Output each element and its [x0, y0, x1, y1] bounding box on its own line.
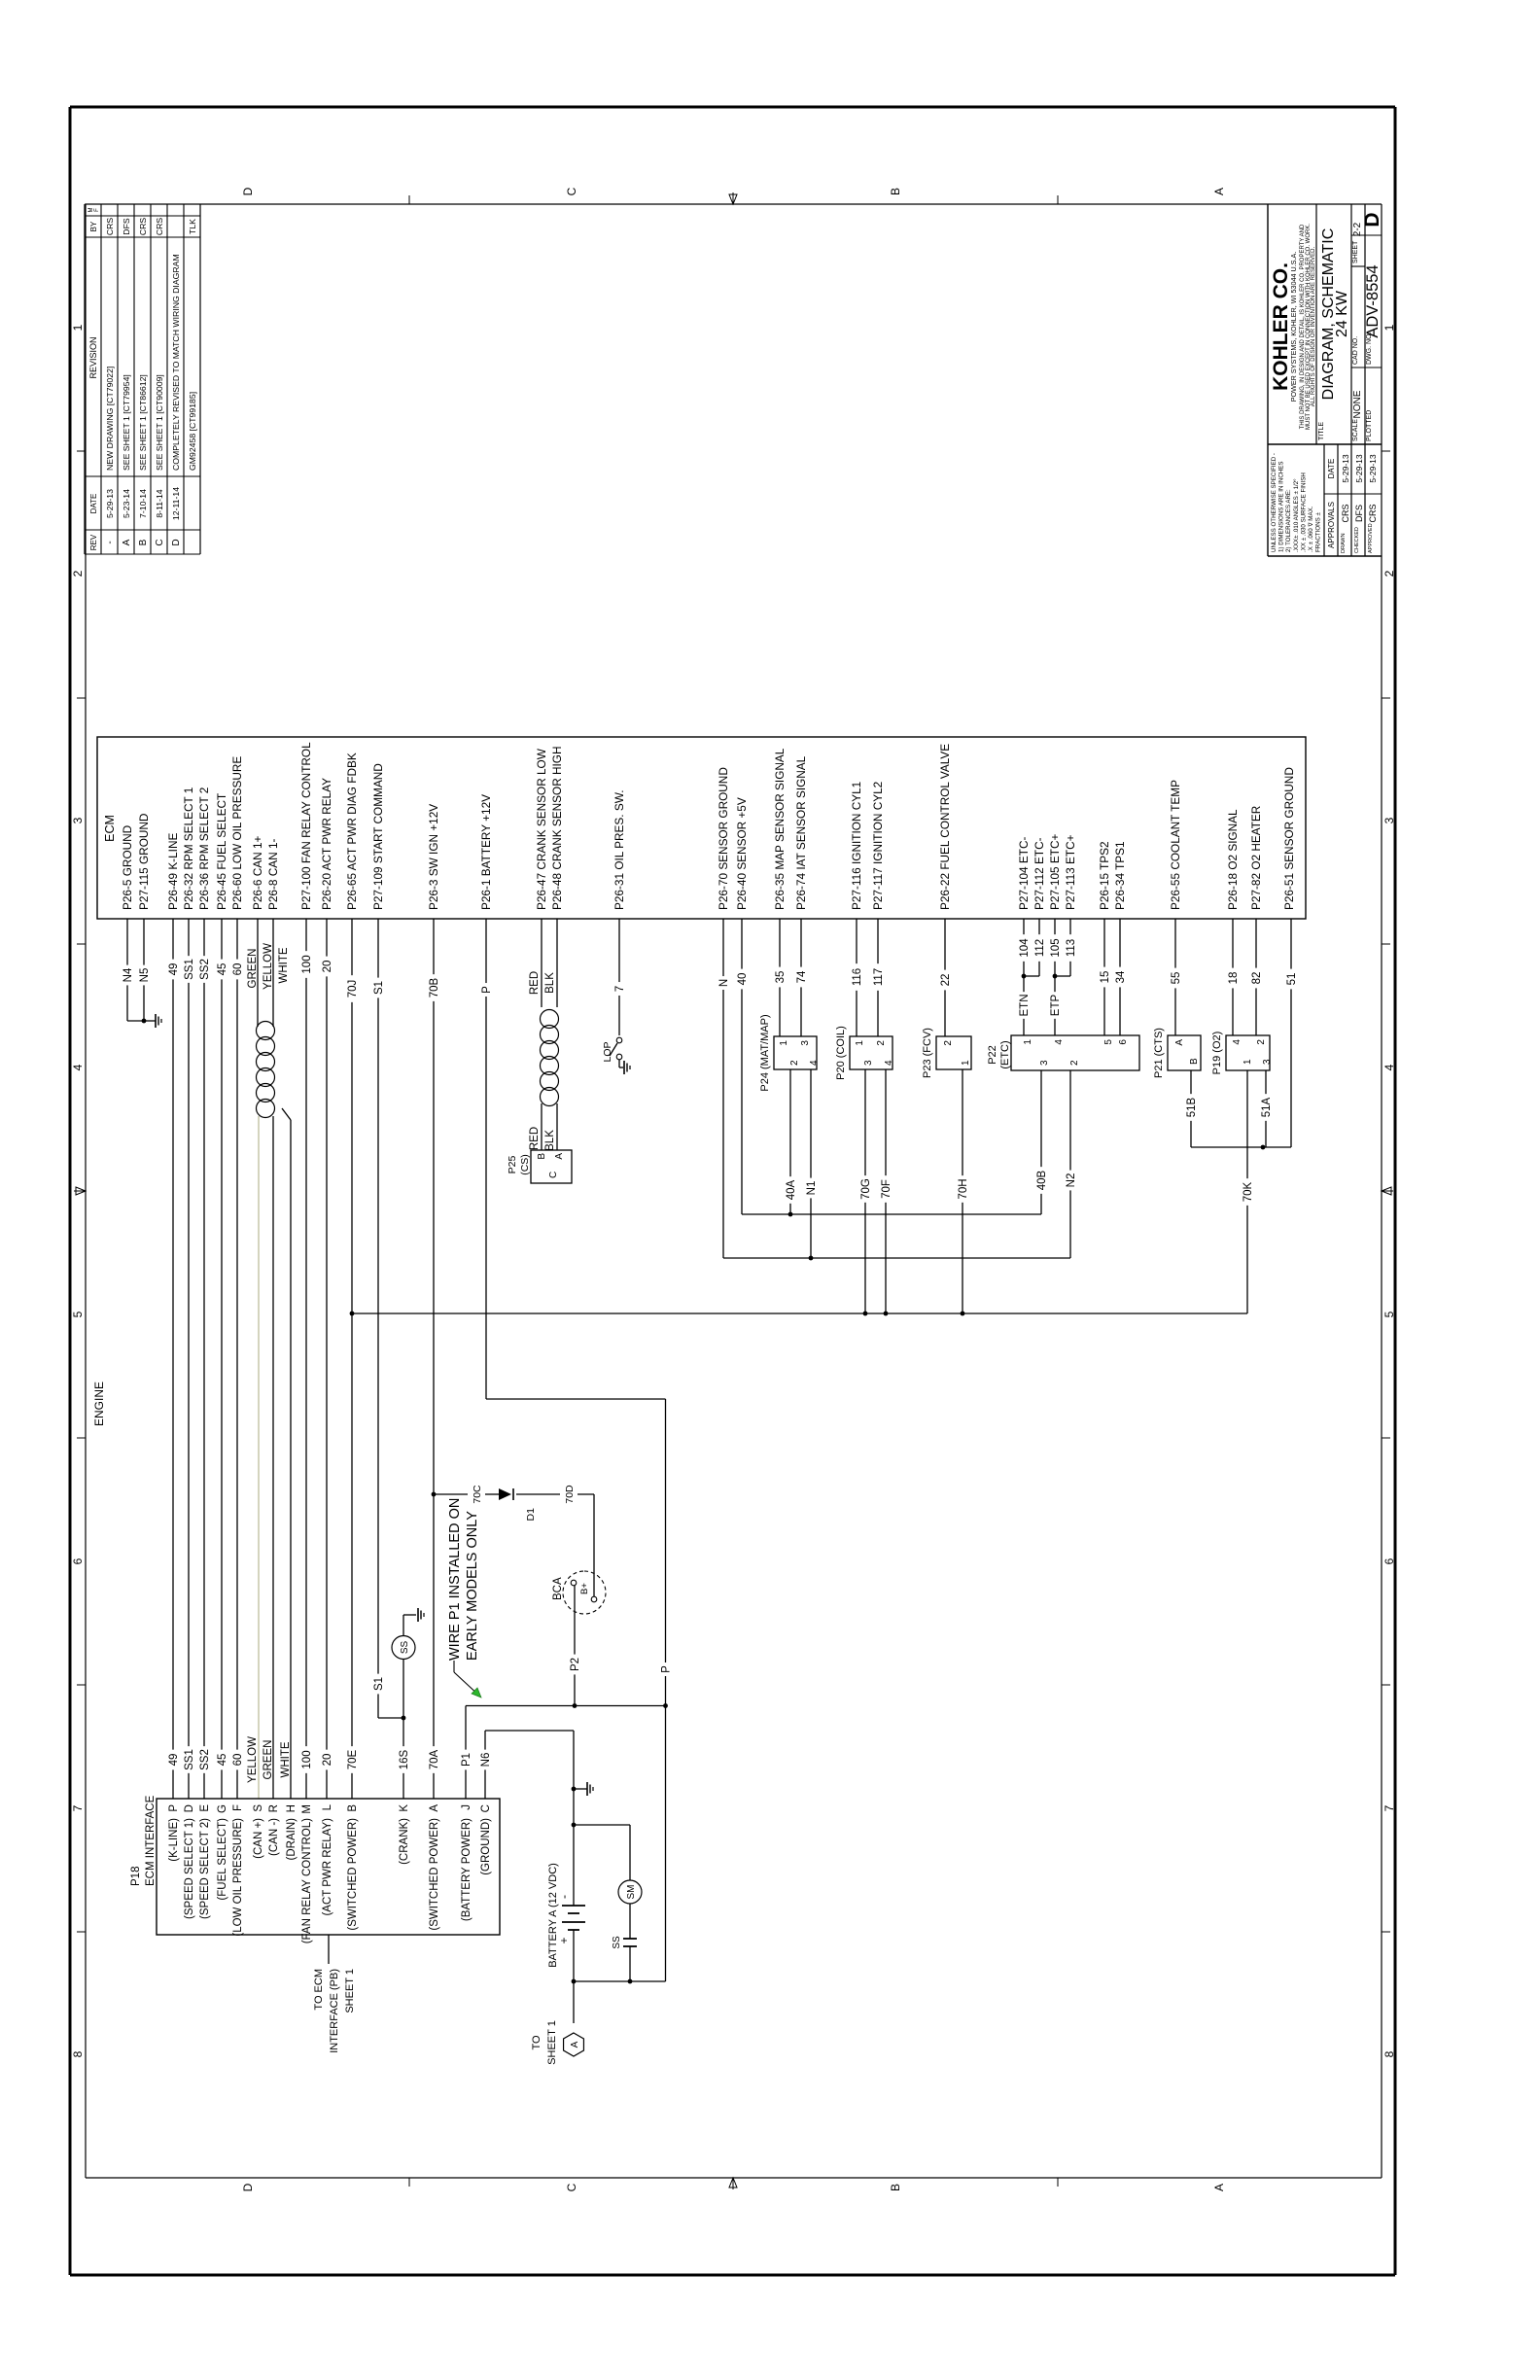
- svg-text:P26-51 SENSOR GROUND: P26-51 SENSOR GROUND: [1282, 767, 1296, 910]
- svg-text:F: F: [232, 1804, 244, 1811]
- svg-text:RED: RED: [529, 1127, 541, 1150]
- svg-text:1: 1: [779, 1040, 789, 1046]
- svg-text:20: 20: [322, 961, 333, 973]
- svg-text:-: -: [557, 1895, 571, 1899]
- svg-text:P26-22 FUEL CONTROL VALVE: P26-22 FUEL CONTROL VALVE: [938, 744, 952, 910]
- svg-text:P26-49 K-LINE: P26-49 K-LINE: [166, 833, 180, 910]
- svg-text:REV: REV: [89, 534, 98, 550]
- svg-text:P2: P2: [570, 1658, 581, 1671]
- svg-text:.XXX± .010 ANGLES ± 1/2°: .XXX± .010 ANGLES ± 1/2°: [1293, 478, 1300, 552]
- svg-text:112: 112: [1034, 939, 1046, 957]
- svg-text:SEE SHEET 1 [CT86612]: SEE SHEET 1 [CT86612]: [138, 374, 148, 471]
- svg-text:5-29-13: 5-29-13: [1368, 454, 1378, 483]
- svg-text:2) TOLERANCES ARE:: 2) TOLERANCES ARE:: [1285, 489, 1292, 552]
- svg-text:8: 8: [71, 2050, 85, 2057]
- svg-text:D: D: [241, 187, 255, 195]
- svg-text:SCALE: SCALE: [1352, 419, 1359, 441]
- svg-text:CRS: CRS: [1341, 504, 1350, 522]
- svg-text:P: P: [168, 1804, 180, 1812]
- svg-text:A: A: [122, 539, 132, 545]
- svg-text:4: 4: [884, 1060, 894, 1066]
- svg-text:(SWITCHED POWER): (SWITCHED POWER): [429, 1818, 440, 1931]
- svg-text:35: 35: [775, 971, 787, 984]
- svg-text:45: 45: [217, 963, 228, 976]
- svg-text:P27-117 IGNITION CYL2: P27-117 IGNITION CYL2: [871, 782, 885, 910]
- svg-text:P27-105 ETC+: P27-105 ETC+: [1048, 834, 1062, 910]
- svg-text:105: 105: [1050, 938, 1062, 957]
- svg-text:2: 2: [1069, 1060, 1080, 1066]
- svg-text:P27-113 ETC+: P27-113 ETC+: [1064, 834, 1077, 910]
- svg-text:B+: B+: [579, 1583, 590, 1594]
- svg-text:.X ± .060 ∇ MAX.: .X ± .060 ∇ MAX.: [1308, 506, 1314, 552]
- svg-text:4: 4: [809, 1060, 820, 1066]
- svg-text:YELLOW: YELLOW: [262, 943, 274, 990]
- svg-text:SEE SHEET 1 [CT79954]: SEE SHEET 1 [CT79954]: [122, 374, 131, 471]
- svg-text:F: F: [94, 208, 100, 212]
- svg-text:70B: 70B: [429, 977, 440, 997]
- svg-text:5-29-13: 5-29-13: [1354, 454, 1364, 483]
- svg-text:70J: 70J: [347, 980, 359, 998]
- svg-text:J: J: [461, 1804, 472, 1810]
- svg-text:8: 8: [1382, 2050, 1396, 2057]
- svg-text:34: 34: [1115, 970, 1127, 983]
- svg-text:DATE: DATE: [1327, 459, 1336, 479]
- svg-text:1: 1: [1023, 1039, 1033, 1045]
- svg-text:S: S: [253, 1804, 264, 1812]
- svg-text:C: C: [480, 1804, 492, 1812]
- svg-text:116: 116: [852, 968, 863, 986]
- svg-text:7: 7: [614, 986, 626, 992]
- svg-text:B: B: [347, 1804, 359, 1812]
- svg-text:49: 49: [168, 963, 180, 976]
- svg-text:SEE SHEET 1 [CT90009]: SEE SHEET 1 [CT90009]: [155, 374, 164, 471]
- svg-text:NEW DRAWING [CT79022]: NEW DRAWING [CT79022]: [105, 367, 115, 471]
- svg-text:P27-116 IGNITION CYL1: P27-116 IGNITION CYL1: [850, 782, 863, 910]
- svg-text:74: 74: [796, 970, 808, 983]
- svg-text:A: A: [554, 1153, 565, 1160]
- svg-text:BCA: BCA: [552, 1577, 564, 1600]
- svg-text:GM92458 [CT99185]: GM92458 [CT99185]: [188, 392, 197, 471]
- svg-text:P26-18 O2 SIGNAL: P26-18 O2 SIGNAL: [1226, 809, 1240, 910]
- svg-text:70A: 70A: [429, 1749, 440, 1769]
- svg-text:(CS): (CS): [519, 1154, 531, 1175]
- svg-text:CAD NO.: CAD NO.: [1352, 336, 1359, 365]
- svg-text:P26-48 CRANK SENSOR HIGH: P26-48 CRANK SENSOR HIGH: [550, 747, 564, 910]
- svg-text:D: D: [184, 1804, 195, 1812]
- svg-text:4: 4: [1054, 1039, 1065, 1045]
- svg-text:ETP: ETP: [1050, 994, 1062, 1016]
- svg-text:APPROVALS: APPROVALS: [1327, 502, 1336, 548]
- svg-text:5-29-13: 5-29-13: [105, 489, 115, 518]
- svg-text:117: 117: [873, 968, 885, 986]
- svg-text:SM: SM: [626, 1885, 637, 1900]
- svg-text:BLK: BLK: [544, 972, 556, 994]
- svg-text:COMPLETELY REVISED TO MATCH WI: COMPLETELY REVISED TO MATCH WIRING DIAGR…: [171, 254, 181, 471]
- svg-text:SHEET: SHEET: [1352, 240, 1359, 263]
- svg-text:S1: S1: [373, 1677, 385, 1691]
- svg-text:D1: D1: [525, 1508, 537, 1522]
- svg-text:N5: N5: [139, 968, 151, 983]
- svg-text:CRS: CRS: [155, 218, 164, 236]
- svg-text:49: 49: [168, 1754, 180, 1767]
- svg-text:P26-32 RPM SELECT 1: P26-32 RPM SELECT 1: [182, 787, 195, 910]
- svg-text:3: 3: [863, 1060, 874, 1066]
- svg-text:15: 15: [1100, 971, 1111, 984]
- svg-text:P1: P1: [461, 1753, 472, 1767]
- svg-text:DFS: DFS: [1354, 505, 1364, 522]
- svg-text:P26-15 TPS2: P26-15 TPS2: [1098, 841, 1111, 910]
- svg-text:D: D: [241, 2183, 255, 2191]
- svg-text:TITLE: TITLE: [1318, 422, 1325, 440]
- svg-text:WHITE: WHITE: [278, 947, 290, 983]
- svg-text:70C: 70C: [472, 1485, 483, 1504]
- svg-text:1: 1: [1242, 1059, 1253, 1065]
- svg-text:P26-74 IAT SENSOR SIGNAL: P26-74 IAT SENSOR SIGNAL: [794, 755, 808, 910]
- svg-text:(K-LINE): (K-LINE): [168, 1818, 180, 1862]
- svg-text:P26-47 CRANK SENSOR LOW: P26-47 CRANK SENSOR LOW: [535, 748, 548, 910]
- svg-text:N4: N4: [122, 967, 134, 982]
- svg-text:ECM INTERFACE: ECM INTERFACE: [145, 1795, 157, 1886]
- svg-text:(ACT PWR RELAY): (ACT PWR RELAY): [322, 1818, 333, 1916]
- svg-text:YELLOW: YELLOW: [247, 1736, 259, 1783]
- svg-text:B: B: [889, 188, 902, 195]
- svg-text:G: G: [217, 1804, 228, 1813]
- svg-text:LOP: LOP: [602, 1041, 613, 1062]
- svg-text:P18: P18: [130, 1867, 142, 1886]
- svg-text:70D: 70D: [564, 1485, 576, 1504]
- svg-text:RED: RED: [529, 971, 541, 995]
- svg-text:2: 2: [1256, 1039, 1267, 1045]
- svg-text:PLOTTED: PLOTTED: [1366, 410, 1373, 441]
- svg-text:A: A: [1174, 1039, 1185, 1046]
- svg-text:P19 (O2): P19 (O2): [1211, 1032, 1223, 1075]
- svg-text:12-11-14: 12-11-14: [171, 487, 181, 520]
- svg-text:SS1: SS1: [184, 959, 195, 980]
- svg-text:N: N: [718, 979, 730, 987]
- svg-text:ALL RIGHTS OF DESIGN OR INVENT: ALL RIGHTS OF DESIGN OR INVENTION ARE RE…: [1311, 246, 1316, 406]
- svg-text:A: A: [1212, 188, 1226, 195]
- svg-text:7: 7: [71, 1804, 85, 1811]
- svg-text:D: D: [171, 539, 182, 545]
- svg-text:2: 2: [789, 1060, 800, 1066]
- svg-text:A: A: [570, 2041, 580, 2047]
- svg-text:(FUEL SELECT): (FUEL SELECT): [217, 1818, 228, 1901]
- svg-text:P27-109 START COMMAND: P27-109 START COMMAND: [371, 763, 385, 910]
- svg-text:1: 1: [855, 1040, 865, 1046]
- svg-text:70G: 70G: [860, 1178, 872, 1200]
- svg-text:P26-1 BATTERY +12V: P26-1 BATTERY +12V: [479, 794, 493, 910]
- svg-text:P26-40 SENSOR +5V: P26-40 SENSOR +5V: [735, 797, 749, 910]
- svg-text:P26-70 SENSOR GROUND: P26-70 SENSOR GROUND: [717, 767, 730, 910]
- svg-text:P26-45 FUEL SELECT: P26-45 FUEL SELECT: [215, 793, 228, 910]
- svg-text:6: 6: [1382, 1557, 1396, 1564]
- svg-text:P26-35 MAP SENSOR SIGNAL: P26-35 MAP SENSOR SIGNAL: [773, 748, 787, 910]
- svg-text:-: -: [105, 541, 116, 543]
- svg-text:1: 1: [961, 1060, 971, 1066]
- svg-text:POWER SYSTEMS, KOHLER, WI: POWER SYSTEMS, KOHLER, WI 53044 U.S.A.: [1289, 252, 1298, 402]
- svg-text:60: 60: [232, 963, 244, 976]
- svg-text:B: B: [138, 539, 149, 545]
- svg-text:B: B: [537, 1153, 547, 1160]
- svg-text:45: 45: [217, 1754, 228, 1767]
- svg-text:P24 (MAT/MAP): P24 (MAT/MAP): [759, 1014, 771, 1091]
- svg-text:WIRE P1 INSTALLED ON: WIRE P1 INSTALLED ON: [447, 1498, 463, 1661]
- svg-text:4: 4: [1382, 1064, 1396, 1070]
- svg-text:CRS: CRS: [1368, 504, 1378, 522]
- svg-text:ENGINE: ENGINE: [92, 1382, 106, 1426]
- svg-text:55: 55: [1171, 972, 1182, 985]
- svg-text:3: 3: [71, 817, 85, 823]
- svg-text:SS: SS: [400, 1641, 410, 1655]
- svg-text:SHEET 1: SHEET 1: [546, 2020, 558, 2065]
- svg-text:DRAWN: DRAWN: [1341, 533, 1347, 553]
- svg-text:6: 6: [71, 1557, 85, 1564]
- svg-text:82: 82: [1251, 972, 1263, 985]
- svg-text:EARLY MODELS ONLY: EARLY MODELS ONLY: [465, 1511, 480, 1661]
- svg-text:7-10-14: 7-10-14: [138, 489, 148, 518]
- svg-text:P25: P25: [507, 1156, 518, 1174]
- svg-text:24 KW: 24 KW: [1334, 290, 1350, 337]
- svg-text:A: A: [429, 1804, 440, 1812]
- svg-text:22: 22: [940, 974, 952, 987]
- svg-text:4: 4: [71, 1064, 85, 1070]
- svg-text:P27-104 ETC-: P27-104 ETC-: [1017, 837, 1031, 910]
- svg-text:K: K: [399, 1804, 410, 1812]
- svg-text:P26-6 CAN 1+: P26-6 CAN 1+: [251, 835, 264, 910]
- svg-text:FRACTIONS ±: FRACTIONS ±: [1315, 512, 1322, 552]
- svg-text:(CAN -): (CAN -): [268, 1818, 280, 1856]
- svg-text:P26-20 ACT PWR RELAY: P26-20 ACT PWR RELAY: [320, 778, 333, 910]
- svg-text:4: 4: [1232, 1039, 1242, 1045]
- svg-text:P: P: [661, 1665, 673, 1673]
- svg-text:P27-112 ETC-: P27-112 ETC-: [1032, 837, 1046, 910]
- svg-text:UNLESS OTHERWISE SPECIFIED -: UNLESS OTHERWISE SPECIFIED -: [1271, 453, 1277, 552]
- svg-text:ECM: ECM: [103, 815, 117, 842]
- svg-text:40B: 40B: [1036, 1170, 1048, 1190]
- svg-text:P26-8 CAN 1-: P26-8 CAN 1-: [266, 838, 280, 910]
- svg-text:3: 3: [800, 1040, 811, 1046]
- svg-text:2: 2: [71, 570, 85, 577]
- svg-text:E: E: [199, 1804, 211, 1812]
- svg-text:TO: TO: [531, 2035, 542, 2050]
- svg-text:INTERFACE (PB): INTERFACE (PB): [329, 1969, 340, 2053]
- svg-text:60: 60: [232, 1754, 244, 1767]
- svg-text:2: 2: [876, 1040, 887, 1046]
- svg-text:SS2: SS2: [199, 1749, 211, 1770]
- svg-text:N2: N2: [1066, 1173, 1077, 1188]
- svg-text:P22: P22: [987, 1045, 998, 1065]
- svg-text:P26-65 ACT PWR DIAG FDBK: P26-65 ACT PWR DIAG FDBK: [345, 752, 359, 910]
- svg-text:H: H: [286, 1804, 297, 1812]
- svg-text:P27-115 GROUND: P27-115 GROUND: [137, 814, 151, 910]
- svg-text:2: 2: [943, 1040, 954, 1046]
- svg-text:(ETC): (ETC): [999, 1040, 1011, 1068]
- svg-text:20: 20: [322, 1754, 333, 1767]
- svg-text:BATTERY A (12 VDC): BATTERY A (12 VDC): [547, 1863, 559, 1968]
- svg-text:3: 3: [1039, 1060, 1050, 1066]
- svg-text:1: 1: [71, 324, 85, 331]
- svg-text:M: M: [301, 1804, 313, 1814]
- svg-text:P26-55 COOLANT TEMP: P26-55 COOLANT TEMP: [1169, 780, 1182, 910]
- svg-text:C: C: [155, 539, 165, 545]
- svg-text:APPROVED: APPROVED: [1368, 523, 1374, 553]
- svg-text:P26-5 GROUND: P26-5 GROUND: [121, 825, 134, 910]
- svg-text:P26-3 SW IGN +12V: P26-3 SW IGN +12V: [427, 804, 440, 910]
- svg-text:REVISION: REVISION: [88, 336, 98, 378]
- svg-text:51: 51: [1286, 973, 1298, 986]
- svg-text:SHEET 1: SHEET 1: [344, 1969, 356, 2013]
- svg-text:3: 3: [1262, 1059, 1273, 1065]
- svg-text:P21 (CTS): P21 (CTS): [1153, 1028, 1165, 1078]
- svg-text:P23 (FCV): P23 (FCV): [922, 1028, 933, 1078]
- svg-text:51B: 51B: [1186, 1097, 1198, 1117]
- svg-text:1: 1: [1382, 324, 1396, 331]
- svg-text:3: 3: [1382, 817, 1396, 823]
- svg-text:113: 113: [1066, 939, 1077, 957]
- svg-text:(BATTERY POWER): (BATTERY POWER): [461, 1818, 472, 1921]
- svg-text:L: L: [322, 1803, 333, 1810]
- svg-text:1) DIMENSIONS ARE IN INCHES: 1) DIMENSIONS ARE IN INCHES: [1278, 461, 1285, 552]
- svg-text:5: 5: [71, 1311, 85, 1317]
- svg-text:P26-36 RPM SELECT 2: P26-36 RPM SELECT 2: [197, 787, 211, 910]
- svg-text:100: 100: [301, 1750, 313, 1768]
- svg-text:6: 6: [1118, 1039, 1129, 1045]
- svg-text:2: 2: [1382, 570, 1396, 577]
- svg-text:51A: 51A: [1261, 1097, 1273, 1117]
- svg-text:P: P: [481, 986, 493, 994]
- svg-text:5-23-14: 5-23-14: [122, 489, 131, 518]
- svg-text:P27-82 O2 HEATER: P27-82 O2 HEATER: [1249, 806, 1263, 910]
- svg-text:5-29-13: 5-29-13: [1341, 454, 1350, 483]
- svg-text:(DRAIN): (DRAIN): [286, 1818, 297, 1861]
- svg-text:P26-60 LOW OIL PRESSURE: P26-60 LOW OIL PRESSURE: [230, 756, 244, 910]
- svg-text:CHECKED: CHECKED: [1354, 527, 1360, 553]
- svg-text:(CAN +): (CAN +): [253, 1818, 264, 1859]
- svg-text:A: A: [1212, 2184, 1226, 2191]
- svg-text:(CRANK): (CRANK): [399, 1818, 410, 1865]
- svg-text:8-11-14: 8-11-14: [155, 489, 164, 517]
- svg-text:TO ECM: TO ECM: [313, 1969, 325, 2011]
- svg-text:7: 7: [1382, 1804, 1396, 1811]
- svg-text:16S: 16S: [399, 1749, 410, 1769]
- svg-text:DFS: DFS: [122, 218, 131, 235]
- svg-text:(FAN RELAY CONTROL): (FAN RELAY CONTROL): [301, 1818, 313, 1943]
- svg-text:C: C: [565, 2183, 578, 2191]
- svg-text:DATE: DATE: [89, 494, 98, 514]
- svg-text:D: D: [1361, 212, 1383, 227]
- svg-text:70K: 70K: [1242, 1181, 1254, 1202]
- svg-text:S1: S1: [373, 981, 385, 995]
- svg-text:GREEN: GREEN: [262, 1740, 274, 1780]
- svg-text:(SPEED SELECT 1): (SPEED SELECT 1): [184, 1818, 195, 1919]
- svg-text:GREEN: GREEN: [247, 949, 259, 989]
- svg-text:ADV-8554: ADV-8554: [1364, 264, 1382, 337]
- svg-text:40A: 40A: [786, 1179, 797, 1200]
- svg-text:70H: 70H: [958, 1178, 969, 1199]
- svg-text:.XX ± .030 SURFACE FINIS: .XX ± .030 SURFACE FINISH: [1300, 472, 1307, 552]
- svg-text:B: B: [889, 2184, 902, 2191]
- svg-text:N1: N1: [806, 1181, 818, 1196]
- svg-text:N6: N6: [480, 1753, 492, 1767]
- svg-text:104: 104: [1019, 938, 1031, 958]
- svg-text:NONE: NONE: [1352, 390, 1363, 418]
- svg-text:SS: SS: [612, 1936, 622, 1949]
- svg-text:70F: 70F: [881, 1179, 892, 1199]
- svg-text:5: 5: [1103, 1039, 1114, 1045]
- svg-text:C: C: [548, 1172, 559, 1178]
- svg-text:P20 (COIL): P20 (COIL): [835, 1026, 847, 1080]
- svg-text:C: C: [565, 187, 578, 195]
- svg-text:P26-34 TPS1: P26-34 TPS1: [1113, 841, 1127, 910]
- svg-text:WHITE: WHITE: [280, 1741, 292, 1777]
- svg-text:TLK: TLK: [188, 219, 197, 234]
- svg-text:+: +: [557, 1937, 571, 1943]
- svg-text:SS1: SS1: [184, 1749, 195, 1770]
- svg-text:P27-100 FAN RELAY CONTROL: P27-100 FAN RELAY CONTROL: [299, 742, 313, 910]
- svg-text:100: 100: [301, 955, 313, 973]
- svg-text:(SWITCHED POWER): (SWITCHED POWER): [347, 1818, 359, 1931]
- svg-text:(GROUND): (GROUND): [480, 1818, 492, 1875]
- svg-text:5: 5: [1382, 1311, 1396, 1317]
- svg-text:18: 18: [1228, 972, 1240, 985]
- svg-text:(LOW OIL PRESSURE): (LOW OIL PRESSURE): [232, 1818, 244, 1937]
- svg-text:CRS: CRS: [105, 218, 115, 236]
- svg-text:R: R: [268, 1804, 280, 1812]
- svg-text:(SPEED SELECT 2): (SPEED SELECT 2): [199, 1818, 211, 1919]
- svg-text:B: B: [1189, 1058, 1200, 1065]
- svg-text:BY: BY: [89, 221, 98, 231]
- svg-text:P26-31 OIL PRES. SW.: P26-31 OIL PRES. SW.: [612, 790, 626, 910]
- svg-text:40: 40: [737, 973, 749, 986]
- svg-text:ETN: ETN: [1019, 995, 1031, 1017]
- svg-text:CRS: CRS: [138, 218, 148, 236]
- svg-text:70E: 70E: [347, 1749, 359, 1769]
- svg-text:BLK: BLK: [544, 1130, 556, 1151]
- svg-text:SS2: SS2: [199, 959, 211, 980]
